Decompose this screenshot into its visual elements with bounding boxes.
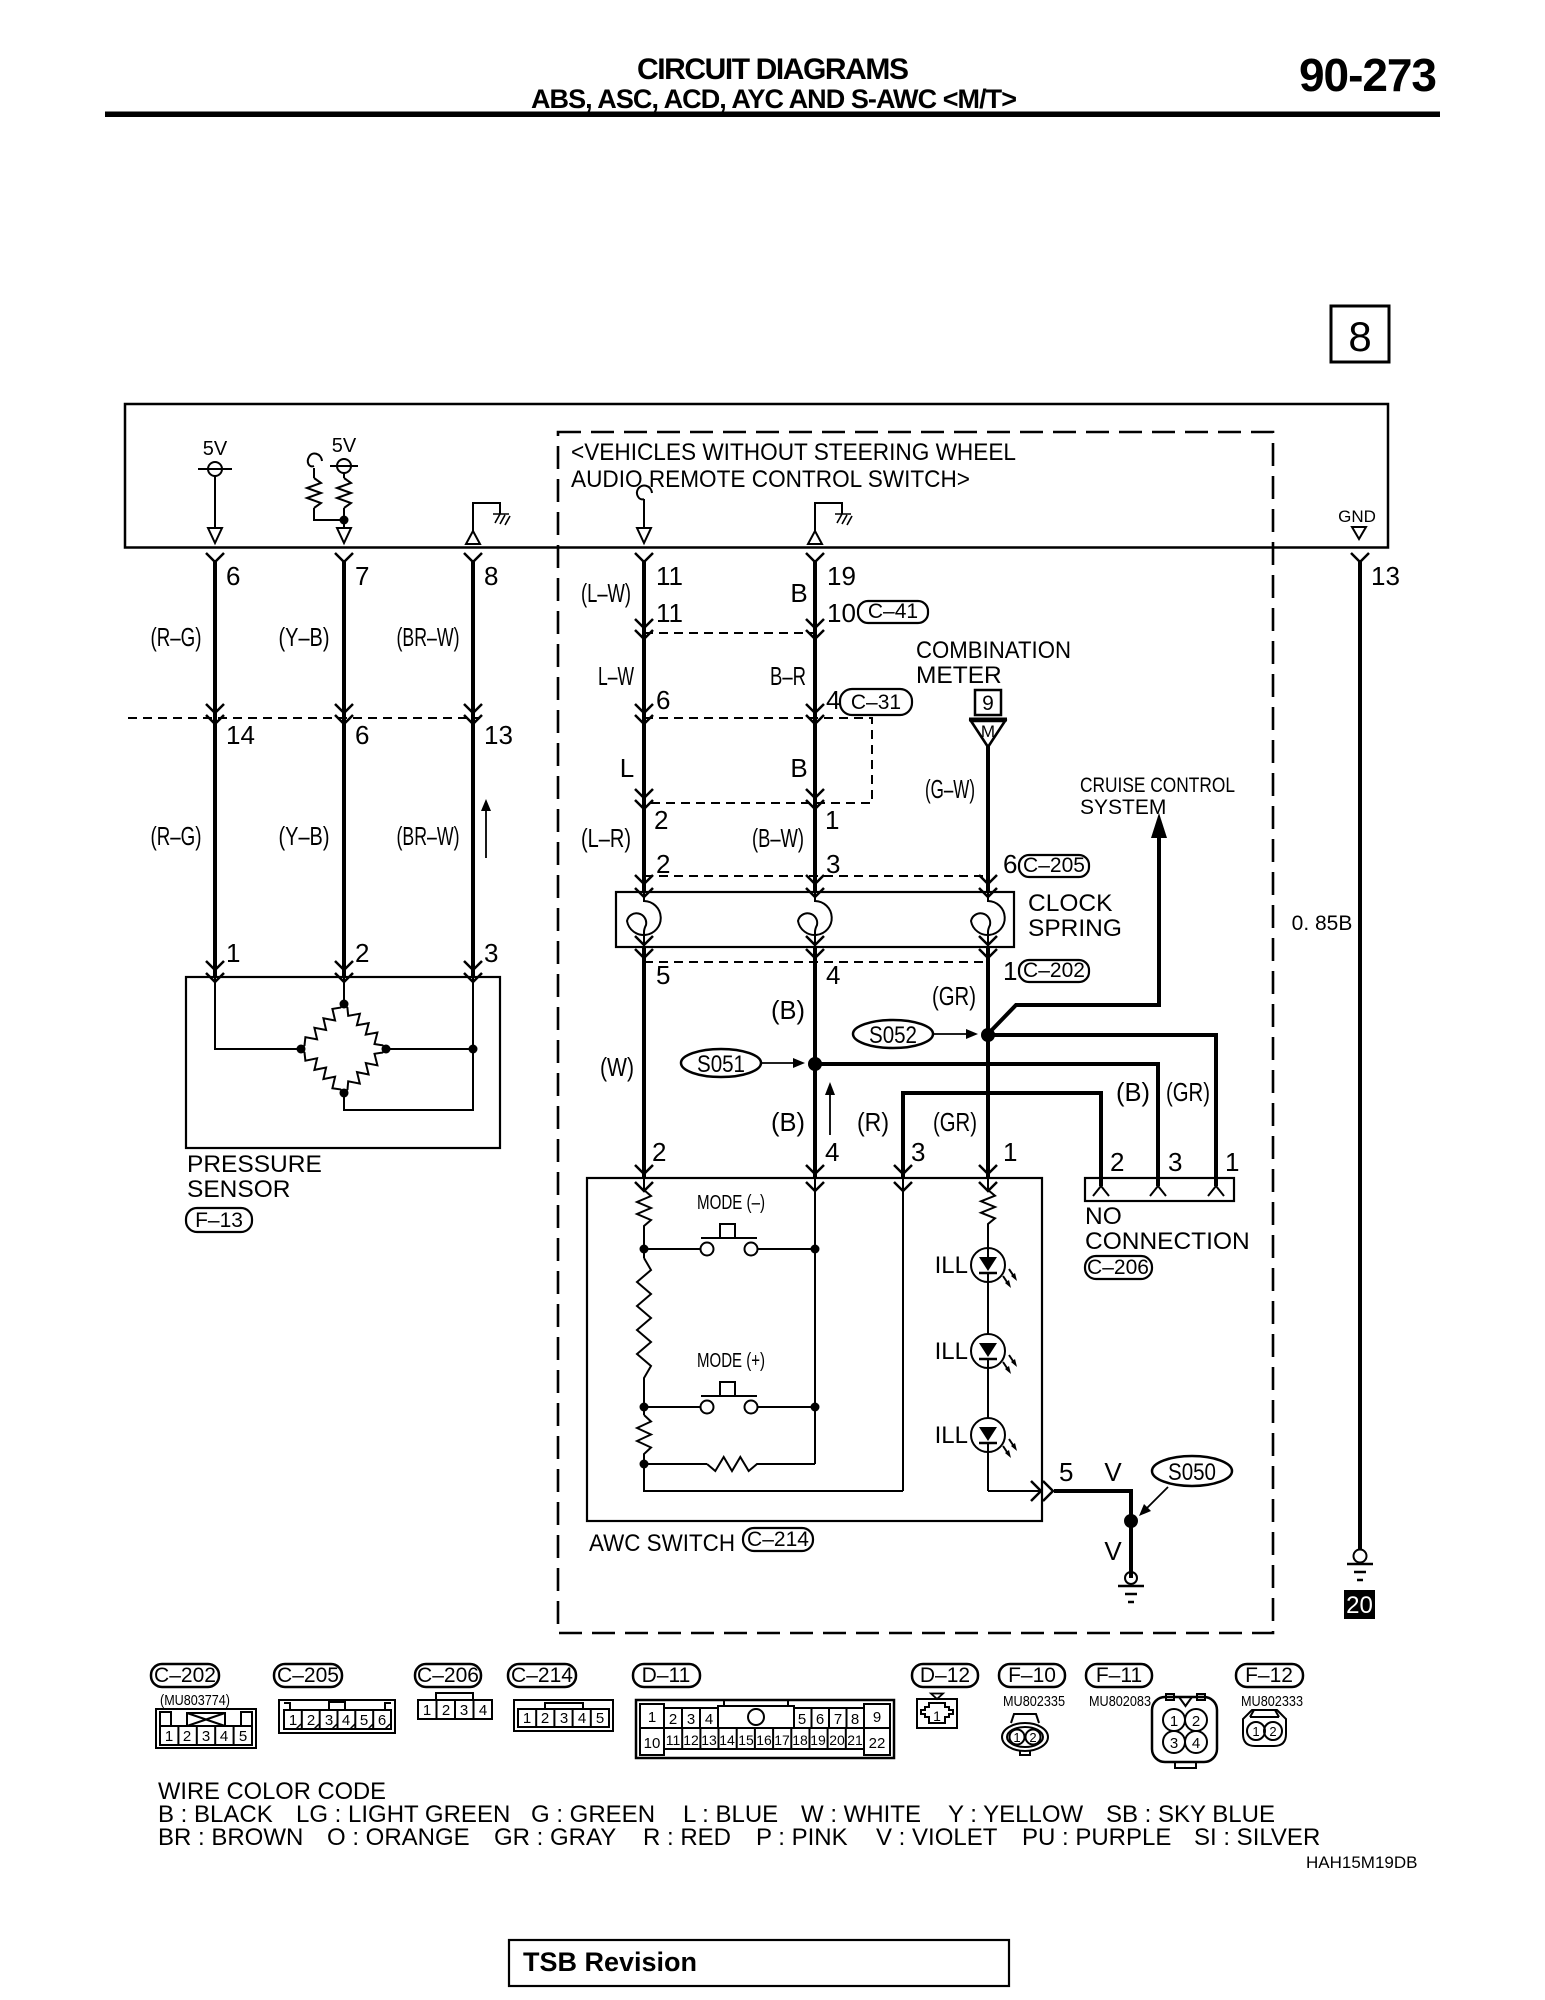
svg-text:8: 8: [1348, 313, 1371, 360]
svg-text:12: 12: [683, 1732, 699, 1748]
chassis ground jog (pin 8): [466, 503, 510, 544]
GND label (pin 13): [1338, 507, 1376, 539]
svg-text:D–11: D–11: [642, 1664, 691, 1687]
svg-text:1: 1: [648, 1709, 656, 1726]
svg-text:(BR–W): (BR–W): [397, 821, 460, 851]
svg-text:C–214: C–214: [747, 1528, 809, 1551]
combination meter: [916, 637, 1071, 689]
pressure sensor label: [187, 1151, 322, 1203]
svg-text:CONNECTION: CONNECTION: [1085, 1228, 1250, 1255]
wire B column inside AWC: [814, 1178, 816, 1464]
svg-text:6: 6: [656, 685, 670, 715]
svg-text:18: 18: [792, 1732, 808, 1748]
svg-text:2: 2: [1269, 1724, 1276, 1739]
wire colors lower left: [151, 821, 460, 851]
bridge node left: [297, 1045, 306, 1054]
sensor lead 1: [215, 977, 301, 1049]
svg-text:TSB Revision: TSB Revision: [523, 1947, 697, 1977]
svg-text:<VEHICLES WITHOUT STEERING WHE: <VEHICLES WITHOUT STEERING WHEEL: [571, 439, 1016, 466]
svg-text:4: 4: [825, 1137, 839, 1167]
svg-text:20: 20: [829, 1732, 845, 1748]
terminal fork C-206 pin1: [1208, 1186, 1224, 1196]
svg-text:14: 14: [719, 1732, 735, 1748]
wire V to ground: [1054, 1491, 1131, 1578]
svg-text:6: 6: [378, 1712, 386, 1729]
wire bottom node loop: [344, 1049, 473, 1110]
wire labels (L-R) / (B-W): [581, 823, 804, 853]
svg-text:4: 4: [826, 960, 840, 990]
svg-text:6: 6: [355, 720, 369, 750]
svg-text:3: 3: [687, 1711, 695, 1728]
svg-text:1: 1: [1003, 956, 1017, 986]
resistor ILL series: [981, 1178, 995, 1248]
connector F-11 drawing: [1152, 1697, 1217, 1762]
svg-text:1: 1: [1003, 1137, 1017, 1167]
pull-up branch hook: [308, 454, 322, 467]
svg-text:3: 3: [202, 1728, 210, 1745]
svg-text:4: 4: [1192, 1735, 1200, 1752]
wire 5V to junction: [343, 508, 345, 528]
svg-text:11: 11: [666, 1732, 681, 1748]
connector D-12 drawing: [917, 1694, 957, 1729]
inline connector dashed C-31: [635, 704, 872, 809]
svg-text:MU802333: MU802333: [1241, 1693, 1303, 1710]
LED ILL 1: [935, 1248, 1017, 1334]
svg-text:2: 2: [442, 1702, 450, 1719]
wire to cruise control: [987, 836, 1159, 1035]
svg-text:13: 13: [484, 720, 513, 750]
meter M triangle: [969, 720, 1007, 748]
svg-text:(B): (B): [771, 995, 805, 1025]
svg-text:L–W: L–W: [598, 661, 634, 691]
svg-text:(R): (R): [857, 1107, 889, 1137]
connector F-12 drawing: [1243, 1710, 1286, 1746]
wire ILL to box edge: [988, 1490, 1042, 1492]
svg-text:B–R: B–R: [770, 661, 806, 691]
svg-text:C–202: C–202: [154, 1664, 216, 1687]
svg-text:NO: NO: [1085, 1203, 1122, 1230]
wire AWC pin3 to C-206 pin2: [903, 1093, 1101, 1186]
svg-text:1: 1: [1252, 1724, 1259, 1739]
inline connector dashed C-202: [644, 961, 988, 963]
wire labels L-W / B-R: [598, 661, 806, 691]
svg-text:5: 5: [596, 1710, 604, 1727]
svg-text:10: 10: [644, 1735, 661, 1752]
splice S051: [681, 1049, 805, 1078]
svg-text:16: 16: [756, 1732, 772, 1748]
svg-text:PRESSURE: PRESSURE: [187, 1151, 322, 1178]
header rule: [105, 112, 1440, 118]
wire pin11 L-W: [642, 560, 646, 892]
junction dot lead3: [469, 1045, 478, 1054]
svg-text:(G–W): (G–W): [925, 774, 975, 804]
terminal fork C-206 pin3: [1150, 1186, 1166, 1196]
connector ref C-214: [743, 1528, 813, 1551]
svg-text:15: 15: [738, 1732, 754, 1748]
junction dot S050: [1124, 1514, 1138, 1528]
svg-text:3: 3: [460, 1702, 468, 1719]
signal drop hook (pin 11): [637, 486, 652, 543]
svg-text:PU : PURPLE: PU : PURPLE: [1022, 1824, 1171, 1851]
chevrons out of clock spring: [635, 936, 997, 958]
junction dot mode minus right: [811, 1245, 820, 1254]
svg-text:SPRING: SPRING: [1028, 915, 1122, 942]
svg-text:10: 10: [827, 598, 856, 628]
svg-text:CRUISE CONTROL: CRUISE CONTROL: [1080, 774, 1235, 797]
svg-text:22: 22: [869, 1735, 886, 1752]
svg-text:4: 4: [578, 1710, 586, 1727]
svg-text:F–10: F–10: [1008, 1664, 1056, 1687]
connector chevrons at sensor: [206, 961, 482, 982]
connector F-10 drawing: [1002, 1714, 1048, 1755]
junction dot S051: [808, 1057, 822, 1071]
svg-text:GR : GRAY: GR : GRAY: [494, 1824, 616, 1851]
svg-text:11: 11: [656, 598, 683, 628]
svg-text:F–12: F–12: [1245, 1664, 1293, 1687]
svg-text:4: 4: [220, 1728, 228, 1745]
svg-text:O : ORANGE: O : ORANGE: [327, 1824, 470, 1851]
svg-text:V : VIOLET: V : VIOLET: [876, 1824, 998, 1851]
connector ref C-206: [1085, 1256, 1152, 1279]
bridge node bottom: [340, 1089, 349, 1098]
svg-text:M: M: [981, 722, 995, 741]
arrow into ECU band: [337, 528, 351, 543]
svg-text:2: 2: [1029, 1730, 1036, 1745]
MODE(-) push switch: [644, 1224, 815, 1256]
svg-text:(BR–W): (BR–W): [397, 622, 460, 652]
chevrons into clock spring: [635, 875, 997, 897]
svg-text:V: V: [1104, 1457, 1122, 1487]
svg-text:4: 4: [826, 685, 840, 715]
svg-text:19: 19: [827, 561, 856, 591]
svg-text:1: 1: [423, 1702, 431, 1719]
svg-text:3: 3: [484, 938, 498, 968]
svg-text:13: 13: [1371, 561, 1400, 591]
C-206 pin numbers: [1110, 1147, 1239, 1177]
pin labels 5 4 1 C-202: [656, 956, 1089, 990]
pin labels 2 3 6 C-205: [656, 849, 1089, 879]
svg-text:MU802083: MU802083: [1089, 1693, 1151, 1710]
svg-text:(B): (B): [771, 1107, 805, 1137]
wire hook down: [313, 468, 315, 478]
no connection label: [1085, 1203, 1250, 1255]
page header title: [531, 53, 1017, 114]
svg-text:(MU803774): (MU803774): [160, 1692, 230, 1709]
5V supply 1: [198, 438, 232, 543]
resistor R2 AWC: [637, 1249, 651, 1407]
svg-text:2: 2: [183, 1728, 191, 1745]
direction arrow up: [481, 799, 491, 858]
ground symbol AWC: [1118, 1572, 1144, 1602]
connector D-11 drawing: [636, 1700, 894, 1758]
svg-text:5V: 5V: [203, 438, 228, 460]
svg-text:B: B: [790, 753, 807, 783]
svg-text:C–205: C–205: [277, 1664, 339, 1687]
AWC pin numbers: [652, 1137, 1017, 1167]
svg-text:5: 5: [239, 1728, 247, 1745]
svg-text:MODE (+): MODE (+): [697, 1350, 765, 1372]
svg-text:1: 1: [226, 938, 240, 968]
svg-text:3: 3: [1168, 1147, 1182, 1177]
svg-text:(Y–B): (Y–B): [279, 622, 330, 652]
svg-text:C–206: C–206: [417, 1664, 479, 1687]
connector C-202 drawing: [156, 1709, 256, 1748]
svg-text:20: 20: [1346, 1592, 1373, 1619]
resistor pull-up branch: [307, 478, 321, 508]
inline connector dashed D-11 left: [128, 704, 513, 750]
svg-text:BR : BROWN: BR : BROWN: [158, 1824, 303, 1851]
5V supply 2 with pull-up resistors: [330, 435, 358, 478]
connector C-206 drawing: [418, 1693, 492, 1719]
inline connector dashed C-205: [644, 875, 988, 877]
svg-text:17: 17: [774, 1732, 790, 1748]
wire GND 0.85B: [1358, 560, 1362, 1550]
cruise arrow head: [1151, 813, 1167, 838]
svg-text:SI : SILVER: SI : SILVER: [1194, 1824, 1320, 1851]
wire pin19 B lower: [813, 947, 817, 1178]
junction dot: [340, 516, 349, 525]
svg-text:3: 3: [1170, 1735, 1178, 1752]
svg-text:ILL: ILL: [935, 1338, 968, 1365]
svg-text:4: 4: [705, 1711, 713, 1728]
junction dot mode minus left: [640, 1245, 649, 1254]
bridge node top: [340, 1000, 349, 1009]
svg-text:SENSOR: SENSOR: [187, 1176, 290, 1203]
svg-text:4: 4: [342, 1712, 350, 1729]
svg-text:1: 1: [289, 1712, 297, 1729]
pin labels 6 / 4 C-31: [656, 685, 912, 715]
pin labels 2 / 1: [654, 805, 839, 835]
clock spring label: [1028, 890, 1122, 942]
MODE(+) push switch: [644, 1382, 815, 1414]
svg-text:P : PINK: P : PINK: [756, 1824, 848, 1851]
svg-text:(L–W): (L–W): [581, 578, 631, 608]
connector C-205 drawing: [279, 1700, 395, 1733]
ground symbol body 20: [1347, 1550, 1373, 1581]
TSB revision box: [509, 1940, 1009, 1986]
wire S052 to C-206 pin1: [988, 1035, 1216, 1186]
svg-text:HAH15M19DB: HAH15M19DB: [1306, 1853, 1418, 1872]
wire pin8 BR-W: [471, 560, 475, 977]
bridge resistor bottom-left: [301, 1049, 344, 1093]
svg-text:14: 14: [226, 720, 255, 750]
svg-text:1: 1: [825, 805, 839, 835]
svg-text:5V: 5V: [332, 435, 357, 457]
pressure sensor box: [186, 977, 500, 1148]
svg-text:(Y–B): (Y–B): [279, 821, 330, 851]
wire colors upper left: [151, 622, 460, 652]
svg-text:1: 1: [165, 1728, 173, 1745]
svg-text:5: 5: [1059, 1457, 1073, 1487]
wire color code: [158, 1778, 1320, 1851]
junction dot bottom left: [640, 1460, 649, 1469]
sensor lead 2: [343, 977, 345, 1004]
wire labels L / B: [620, 753, 808, 783]
wire pin7 Y-B: [342, 560, 346, 977]
svg-text:V: V: [1104, 1536, 1122, 1566]
connector row labels: [151, 1664, 1303, 1687]
inline connector dashed C-41: [635, 619, 824, 639]
svg-text:4: 4: [479, 1702, 487, 1719]
wire labels (B) (GR) (W): [600, 981, 976, 1082]
svg-text:2: 2: [541, 1710, 549, 1727]
AWC switch box: [587, 1178, 1042, 1521]
bridge resistor top-right: [344, 1004, 386, 1049]
svg-text:0. 85B: 0. 85B: [1292, 912, 1353, 935]
svg-text:2: 2: [669, 1711, 677, 1728]
wire branch to junction: [314, 508, 344, 520]
svg-text:AUDIO REMOTE CONTROL SWITCH>: AUDIO REMOTE CONTROL SWITCH>: [571, 466, 970, 493]
svg-text:6: 6: [226, 561, 240, 591]
wire R column inside AWC: [902, 1178, 904, 1491]
wire meter G-W: [986, 746, 990, 892]
svg-text:19: 19: [810, 1732, 826, 1748]
svg-text:ILL: ILL: [935, 1252, 968, 1279]
svg-text:1: 1: [1170, 1713, 1178, 1730]
svg-text:2: 2: [1192, 1713, 1200, 1730]
middle wire labels row 1: [581, 578, 808, 608]
svg-text:L: L: [620, 753, 634, 783]
svg-text:3: 3: [560, 1710, 568, 1727]
svg-text:1: 1: [1013, 1730, 1020, 1745]
ECU band box: [125, 404, 1388, 548]
svg-text:F–13: F–13: [195, 1209, 243, 1232]
svg-text:ILL: ILL: [935, 1422, 968, 1449]
connector C-214 drawing: [514, 1700, 613, 1731]
resistor on 5V line: [337, 478, 351, 508]
svg-text:(W): (W): [600, 1052, 634, 1082]
svg-text:MODE (–): MODE (–): [697, 1192, 765, 1214]
clock spring coil 1: [627, 892, 661, 947]
clock spring coil 3: [971, 892, 1005, 947]
wire right node to lead3: [386, 1048, 473, 1050]
svg-text:21: 21: [847, 1732, 863, 1748]
svg-text:(R–G): (R–G): [151, 821, 202, 851]
svg-text:C–206: C–206: [1087, 1256, 1149, 1279]
resistor R4 AWC horizontal: [644, 1457, 815, 1471]
exit chevrons pin5: [1031, 1481, 1053, 1501]
chassis ground jog (pin 19): [808, 503, 852, 544]
svg-text:(GR): (GR): [933, 1107, 977, 1137]
svg-text:S050: S050: [1168, 1459, 1216, 1486]
sheet index box 8: [1331, 306, 1389, 362]
clock spring box: [616, 892, 1014, 947]
chevrons into AWC switch: [635, 1165, 997, 1191]
svg-text:(R–G): (R–G): [151, 622, 202, 652]
svg-text:5: 5: [656, 960, 670, 990]
svg-text:GND: GND: [1338, 507, 1376, 526]
svg-text:9: 9: [982, 692, 994, 715]
LED ILL 2: [935, 1334, 1017, 1418]
svg-text:5: 5: [360, 1712, 368, 1729]
meter pin 9 box: [975, 690, 1001, 715]
wire pin6 R-G: [213, 560, 217, 977]
svg-text:9: 9: [873, 1709, 881, 1726]
bridge resistor bottom-right: [344, 1049, 386, 1093]
terminal fork C-206 pin2: [1093, 1186, 1109, 1196]
svg-text:3: 3: [325, 1712, 333, 1729]
svg-text:13: 13: [701, 1732, 717, 1748]
svg-text:7: 7: [834, 1711, 842, 1728]
svg-text:S052: S052: [869, 1022, 917, 1049]
clock spring coil 2: [798, 892, 832, 947]
svg-text:11: 11: [656, 561, 683, 591]
svg-text:2: 2: [355, 938, 369, 968]
svg-text:C–202: C–202: [1023, 959, 1085, 982]
svg-text:5: 5: [798, 1711, 806, 1728]
svg-text:COMBINATION: COMBINATION: [916, 637, 1071, 664]
svg-text:S051: S051: [697, 1051, 745, 1078]
svg-text:MU802335: MU802335: [1003, 1693, 1065, 1710]
ground ref 20: [1344, 1590, 1375, 1619]
junction dot mode plus left: [640, 1403, 649, 1412]
svg-text:SYSTEM: SYSTEM: [1080, 796, 1166, 819]
svg-text:B: B: [790, 578, 807, 608]
sensor lead 3: [472, 977, 474, 1049]
wire labels above AWC: [771, 1077, 1210, 1137]
resistor R3 AWC: [637, 1407, 651, 1464]
direction arrow up small: [825, 1082, 835, 1135]
svg-text:2: 2: [656, 849, 670, 879]
junction dot mode plus right: [811, 1403, 820, 1412]
svg-text:C–205: C–205: [1023, 854, 1085, 877]
svg-text:3: 3: [911, 1137, 925, 1167]
svg-text:8: 8: [851, 1711, 859, 1728]
svg-text:C–214: C–214: [511, 1664, 573, 1687]
pin labels 11 / 10 C-41: [656, 598, 928, 628]
wire meter G-W lower: [986, 947, 990, 1178]
bridge resistor top-left: [301, 1004, 344, 1049]
svg-text:(GR): (GR): [932, 981, 976, 1011]
svg-text:6: 6: [816, 1711, 824, 1728]
svg-text:F–11: F–11: [1096, 1664, 1142, 1687]
svg-text:C–31: C–31: [851, 691, 901, 714]
LED ILL 3: [935, 1418, 1017, 1491]
no connection box C-206: [1085, 1178, 1234, 1201]
cruise control system: [1080, 774, 1235, 819]
svg-text:CLOCK: CLOCK: [1028, 890, 1113, 917]
svg-text:1: 1: [1225, 1147, 1239, 1177]
svg-text:CIRCUIT DIAGRAMS: CIRCUIT DIAGRAMS: [637, 53, 909, 86]
dashed option box <VEHICLES WITHOUT...>: [558, 432, 1273, 1633]
svg-text:6: 6: [1003, 849, 1017, 879]
svg-text:2: 2: [1110, 1147, 1124, 1177]
svg-text:1: 1: [933, 1708, 941, 1724]
svg-text:ABS, ASC, ACD, AYC AND S-AWC <: ABS, ASC, ACD, AYC AND S-AWC <M/T>: [531, 84, 1017, 114]
svg-text:7: 7: [355, 561, 369, 591]
pin numbers below band: [226, 561, 1400, 591]
svg-text:(B–W): (B–W): [752, 823, 804, 853]
junction dot S052: [981, 1028, 995, 1042]
svg-text:C–41: C–41: [868, 600, 918, 623]
splice S050: [1139, 1456, 1232, 1516]
wire bottom return: [644, 1464, 903, 1491]
wire S051 to C-206 pin3: [815, 1064, 1158, 1186]
svg-text:8: 8: [484, 561, 498, 591]
svg-text:(L–R): (L–R): [581, 823, 631, 853]
wire pin11 L-W lower: [642, 947, 646, 1178]
splice S052: [853, 1020, 978, 1049]
bridge node right: [382, 1045, 391, 1054]
svg-text:3: 3: [826, 849, 840, 879]
svg-text:1: 1: [523, 1710, 531, 1727]
svg-text:METER: METER: [916, 662, 1002, 689]
wire pin19 B: [813, 560, 817, 892]
pressure sensor pins: [226, 938, 498, 968]
svg-text:90-273: 90-273: [1299, 49, 1437, 101]
svg-text:2: 2: [652, 1137, 666, 1167]
resistor R1 AWC: [637, 1178, 651, 1249]
